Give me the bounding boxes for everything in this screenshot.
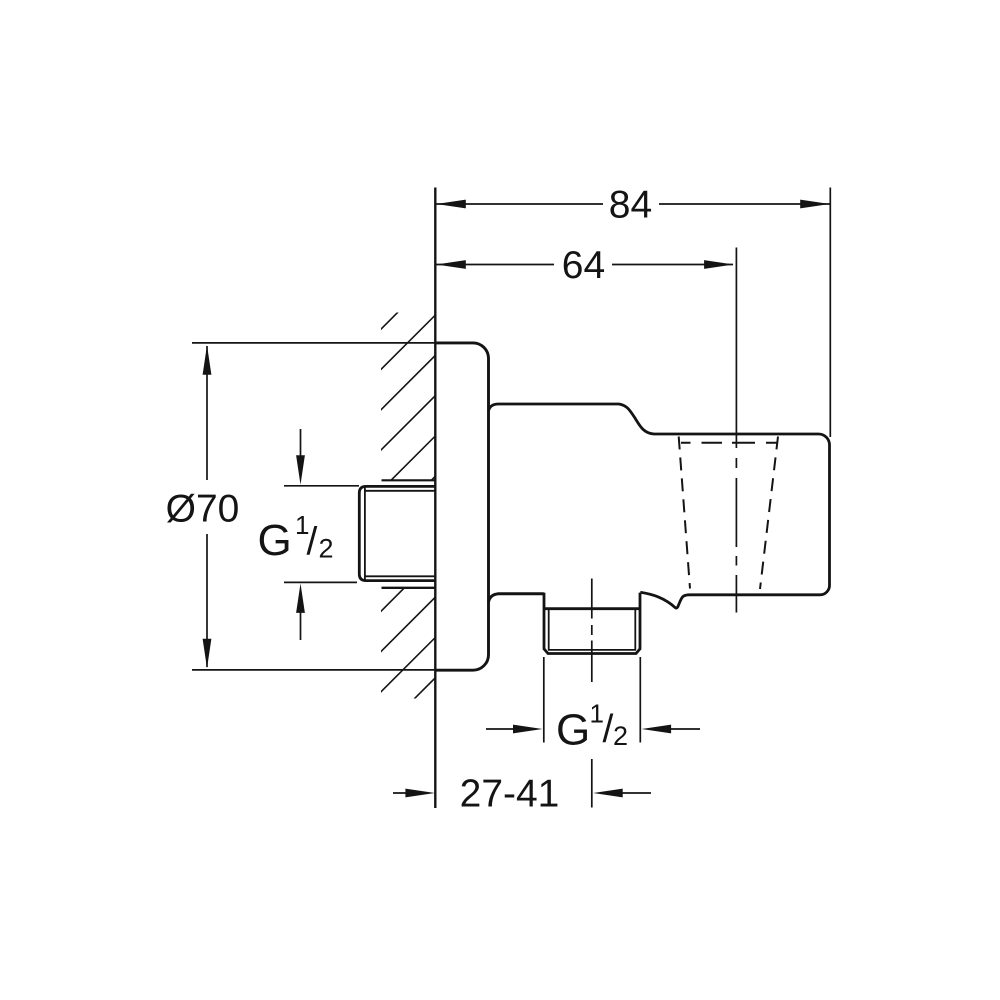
outlet thread root line right bbox=[634, 609, 636, 650]
wall hole upper boundary bbox=[382, 479, 437, 481]
outlet G1/2 dimension extension line right bbox=[639, 657, 641, 743]
svg-text:27-41: 27-41 bbox=[460, 773, 560, 816]
wall face line bbox=[434, 188, 436, 809]
inlet thread chamfer line bbox=[364, 486, 366, 580]
inlet thread G1/2 outer profile bbox=[359, 486, 436, 580]
body bottom edge left of outlet bbox=[489, 594, 544, 602]
dimension 27-41 left arrow bbox=[393, 792, 410, 794]
svg-text:2: 2 bbox=[319, 534, 334, 564]
outlet thread root line bottom bbox=[548, 649, 636, 651]
svg-text:/: / bbox=[603, 708, 614, 751]
inlet thread root line bottom bbox=[365, 575, 437, 577]
dimension D70 extension line bottom bbox=[192, 669, 436, 671]
wall hole lower boundary bbox=[382, 587, 437, 589]
svg-text:84: 84 bbox=[609, 184, 652, 227]
dimension 64 line bbox=[436, 264, 554, 266]
dimension 84 extension line right bbox=[829, 188, 831, 438]
outlet thread G1/2 outer profile bbox=[544, 593, 640, 654]
dimension D70 arrowheads bbox=[203, 345, 212, 375]
dimension 84 arrowheads bbox=[436, 200, 466, 209]
outlet thread top line bbox=[544, 607, 640, 610]
outlet G1/2 dimension left arrow bbox=[486, 728, 516, 730]
dimension 27-41 right arrow bbox=[621, 792, 651, 794]
holder cone hidden line left bbox=[679, 437, 690, 589]
wall hatching lower section bbox=[380, 555, 437, 773]
outlet thread root line left bbox=[548, 609, 550, 650]
svg-text:64: 64 bbox=[562, 244, 605, 287]
holder centre line dash-dot bbox=[735, 248, 737, 613]
holder cone hidden line right bbox=[760, 437, 778, 590]
dimension 84 line bbox=[436, 203, 603, 205]
wall hatching upper section bbox=[380, 233, 437, 572]
svg-text:G: G bbox=[258, 516, 292, 565]
inlet G1/2 dimension upper arrow bbox=[300, 429, 302, 458]
svg-text:2: 2 bbox=[613, 721, 628, 751]
inlet G1/2 dimension extension line bottom bbox=[284, 581, 357, 583]
outlet G1/2 dimension right arrow bbox=[668, 728, 700, 730]
svg-text:/: / bbox=[307, 521, 318, 564]
holder cone hidden line top bbox=[681, 442, 777, 444]
inlet thread root line top bbox=[365, 490, 437, 492]
inlet G1/2 dimension extension line top bbox=[284, 485, 359, 487]
svg-text:Ø70: Ø70 bbox=[166, 488, 240, 531]
dimension D70 extension line top bbox=[192, 342, 436, 344]
body outline bbox=[489, 404, 830, 608]
outlet centre line dash-dot bbox=[591, 579, 593, 808]
escutcheon flange bbox=[435, 343, 489, 670]
dimension D70 line bbox=[206, 346, 208, 480]
dimension 64 arrowheads bbox=[436, 260, 466, 269]
svg-text:G: G bbox=[556, 706, 590, 755]
outlet G1/2 dimension extension line left bbox=[543, 657, 545, 743]
inlet G1/2 dimension lower arrow bbox=[300, 611, 302, 640]
